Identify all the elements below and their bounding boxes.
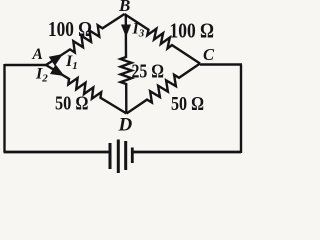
resistor 100ohm B-C (125, 14, 201, 64)
svg-text:50 Ω: 50 Ω (55, 93, 89, 115)
battery plate 2 long (117, 140, 120, 174)
svg-text:I2: I2 (35, 66, 48, 85)
wire right edge up (240, 65, 242, 154)
resistor 100ohm A-B (46, 14, 125, 65)
wire C to right edge (200, 63, 242, 65)
battery plate 4 short (131, 148, 134, 164)
svg-text:I1: I1 (65, 53, 78, 72)
wire left edge down (3, 64, 5, 152)
svg-text:100 Ω: 100 Ω (48, 17, 92, 41)
svg-text:D: D (118, 115, 133, 136)
resistor 25ohm B-D vertical (121, 15, 132, 112)
wire bottom left to battery (4, 151, 111, 154)
arrow I3 (121, 25, 131, 38)
svg-text:C: C (203, 45, 215, 64)
wire A to left edge (5, 64, 47, 66)
resistor 50ohm A-D (46, 65, 127, 114)
svg-text:25 Ω: 25 Ω (132, 61, 165, 83)
battery plate 1 long (109, 143, 112, 169)
arrow I2 (50, 64, 65, 76)
svg-text:50 Ω: 50 Ω (171, 93, 204, 115)
battery plate 3 long (124, 141, 127, 170)
arrow I1 (49, 54, 63, 66)
svg-text:I3: I3 (132, 21, 145, 40)
svg-text:100 Ω: 100 Ω (170, 19, 215, 43)
wire battery to bottom right (133, 151, 242, 154)
svg-text:B: B (118, 0, 130, 15)
resistor 50ohm D-C (127, 64, 201, 114)
svg-text:A: A (32, 46, 43, 63)
